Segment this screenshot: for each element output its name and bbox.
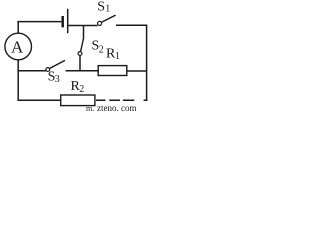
wire bottom-left solid segment to resistor R2 <box>18 99 61 101</box>
switch S2 pivot circle <box>78 52 82 56</box>
svg-text:m.: m. <box>86 104 94 111</box>
battery cell long thin plate <box>67 9 69 33</box>
wire from top wire down to ammeter top <box>17 21 19 33</box>
svg-text:2: 2 <box>79 84 84 95</box>
ammeter A <box>5 33 32 60</box>
wire from S1 to top-right corner <box>116 24 147 26</box>
svg-text:1: 1 <box>115 51 120 62</box>
svg-text:zteno. com: zteno. com <box>97 103 137 111</box>
wire middle left segment to switch S3 <box>18 70 47 72</box>
switch S3 blade (open, up-right) <box>50 60 65 68</box>
battery cell short thick plate <box>61 16 64 27</box>
svg-text:2: 2 <box>99 45 104 56</box>
svg-text:A: A <box>11 38 24 57</box>
wire from S3 to resistor R1 <box>66 70 98 72</box>
wire top-left from ammeter branch to battery <box>17 21 61 23</box>
wire bottom-right dashed segment from R2 to right corner <box>96 99 147 101</box>
switch S2 blade (open, leaning) <box>81 38 84 52</box>
wire from ammeter bottom to bottom-left corner <box>17 60 19 101</box>
switch S1 blade (open, up-right) <box>102 15 116 22</box>
svg-text:3: 3 <box>55 74 60 85</box>
svg-text:1: 1 <box>105 3 110 14</box>
wire S2 branch drop from top wire <box>83 26 85 39</box>
svg-text:S: S <box>97 0 105 15</box>
resistor R1 box <box>98 66 127 76</box>
switch S1 pivot circle <box>98 21 102 25</box>
wire right edge vertical <box>146 25 148 101</box>
switch S3 pivot circle <box>46 68 50 72</box>
wire from R1 to right edge <box>127 70 147 72</box>
resistor R2 box <box>61 95 95 106</box>
wire from battery to switch S1 pivot <box>68 25 97 27</box>
wire from S2 pivot down to middle wire <box>79 55 81 71</box>
